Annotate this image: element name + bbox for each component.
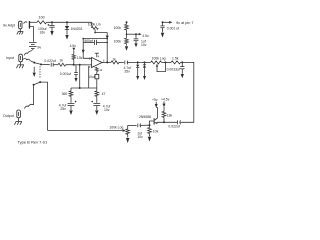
svg-text:0.001 uf: 0.001 uf [167, 27, 179, 31]
ground arrow (divider) [125, 46, 128, 51]
resistor 13k bottom [162, 107, 166, 122]
svg-text:1k: 1k [112, 57, 116, 61]
ground arrow (D2) [136, 76, 139, 80]
resistor 47 [95, 88, 99, 103]
node [66, 21, 68, 23]
svg-text:9v: 9v [37, 46, 41, 50]
divider resistor 100k upper [125, 22, 129, 34]
wire [162, 61, 171, 63]
capacitor 10uf [95, 74, 99, 88]
dpdt dashed link [39, 66, 41, 79]
emitter wire [157, 121, 177, 123]
svg-text:4.5v: 4.5v [70, 44, 77, 48]
node [79, 87, 81, 89]
pot 100k Lin (gain) [91, 22, 98, 32]
node (4.5v) [135, 33, 137, 35]
arrow 9v supply [163, 21, 173, 24]
node (pin7 cap) [162, 21, 164, 23]
arrow into box [106, 36, 109, 39]
switch bar [29, 21, 30, 29]
feedback left wire to pin2 [83, 39, 91, 59]
svg-text:47: 47 [102, 92, 106, 96]
capacitor 4.7uf 25v [68, 103, 75, 110]
ground arrow (0.0033uf) [181, 74, 184, 78]
svg-text:0.0033uf: 0.0033uf [167, 68, 180, 72]
node (wiper) [94, 32, 96, 34]
ground arrow (filter cap) [74, 78, 77, 82]
ground arrow (C1) [50, 31, 53, 36]
wire bar to battery [29, 27, 33, 42]
svg-text:+: + [92, 64, 94, 68]
svg-text:1k: 1k [59, 59, 63, 63]
ground arrow (D1) [65, 35, 68, 40]
divider resistor 100k lower [125, 34, 129, 45]
svg-text:1N4001: 1N4001 [71, 27, 83, 31]
node [164, 61, 166, 63]
node [126, 21, 128, 23]
svg-text:13k: 13k [167, 114, 173, 118]
svg-text:+4.5v: +4.5v [161, 97, 170, 101]
ground (DC jack) [17, 29, 24, 35]
svg-text:35v: 35v [124, 70, 130, 74]
wire to opamp [66, 64, 92, 66]
ground arrow (10k) [148, 137, 151, 142]
ground (input jack) [16, 62, 24, 68]
feedback box top wire [83, 38, 107, 40]
arrow into volume pot [123, 129, 126, 132]
svg-text:100: 100 [39, 15, 45, 19]
op-amp U1 [92, 57, 102, 68]
svg-text:-: - [92, 58, 93, 62]
pot 100k Log tone [151, 61, 162, 64]
svg-text:100k Log: 100k Log [109, 126, 123, 130]
svg-text:Input: Input [6, 56, 14, 60]
wire rail left [29, 21, 37, 23]
resistor 1k output [111, 61, 119, 64]
pin 4 stub [95, 53, 100, 58]
input jack tip hook [23, 59, 31, 61]
resistor 360 [69, 88, 73, 103]
svg-text:10v: 10v [104, 108, 110, 112]
svg-text:9v Adpt: 9v Adpt [3, 23, 15, 27]
svg-text:2N5088: 2N5088 [139, 115, 151, 119]
svg-text:100k Lin: 100k Lin [88, 23, 101, 27]
svg-text:10uf: 10uf [88, 75, 95, 79]
capacitor 1uf 10v [138, 124, 150, 128]
input jack J2 [19, 54, 23, 62]
switch lower contact [33, 84, 35, 86]
ground arrow (D3) [143, 76, 146, 80]
switch upper blade [31, 61, 41, 65]
resistor 1.5k [171, 61, 181, 64]
ground arrow (4.7uf 10v) [95, 110, 98, 115]
ground arrow (supply cap) [161, 33, 164, 38]
svg-text:10v: 10v [137, 135, 143, 139]
switch upper contact [33, 62, 35, 64]
collector wire [156, 108, 157, 118]
pot 100k Log volume [126, 125, 130, 137]
svg-text:10v: 10v [141, 43, 147, 47]
svg-text:+9v: +9v [152, 98, 158, 102]
svg-text:1.5k: 1.5k [172, 56, 179, 60]
wire wiper to box [95, 33, 107, 37]
wire divider to bias node [127, 33, 137, 35]
ground arrow (4.7uf 25v) [69, 110, 72, 115]
node (output) [106, 61, 108, 63]
wire pin3 down [88, 66, 90, 88]
svg-text:100k: 100k [114, 40, 122, 44]
svg-text:100k Log: 100k Log [152, 56, 166, 60]
svg-text:100k: 100k [114, 26, 122, 30]
wire pot top [128, 124, 137, 126]
svg-text:13k: 13k [77, 56, 83, 60]
transistor Q1 [150, 118, 158, 125]
node [137, 61, 139, 63]
plus mark [75, 101, 77, 103]
svg-text:10k: 10k [153, 130, 159, 134]
diode D1 1N4001 [65, 22, 69, 34]
svg-text:0.022uf: 0.022uf [44, 59, 55, 63]
output jack J3 [17, 110, 21, 118]
battery switch hook [24, 51, 32, 56]
wire pole to rail [40, 82, 47, 130]
svg-text:0.022uf: 0.022uf [168, 125, 179, 129]
resistor 13k bias [72, 50, 75, 64]
bottom rail [48, 129, 123, 131]
diode D2 clip [136, 62, 139, 76]
resistor small (opamp leg) [95, 67, 98, 75]
capacitor 500pf row [83, 40, 107, 45]
ground arrow (volume) [126, 138, 129, 143]
node [181, 61, 183, 63]
node (divider mid) [126, 33, 128, 35]
capacitor 0.001uf (supply) [160, 22, 164, 32]
svg-text:9v at pin 7: 9v at pin 7 [176, 21, 194, 25]
svg-text:4.5v: 4.5v [142, 34, 149, 38]
ground stub (switch) [33, 67, 35, 73]
plus mark [91, 101, 93, 103]
arrow +4.5v [163, 101, 166, 107]
svg-text:360: 360 [62, 92, 68, 96]
svg-text:Type B Rev 7-01: Type B Rev 7-01 [17, 140, 48, 145]
node [82, 38, 84, 40]
capacitor 0.022uf input [51, 63, 58, 67]
wire to right edge [180, 62, 193, 122]
node [144, 61, 146, 63]
node [106, 42, 108, 44]
arrow from 4.5v [72, 48, 75, 51]
capacitor 1uf bias [134, 34, 139, 43]
ground (output jack) [14, 118, 22, 125]
capacitor 0.0033uf [180, 62, 184, 73]
plus mark C1 [48, 24, 50, 26]
svg-text:500pf: 500pf [84, 39, 93, 43]
wire leg bus [71, 87, 97, 89]
arrow on feedback wire [82, 50, 85, 54]
wire node down [79, 65, 81, 88]
node [73, 64, 75, 66]
node A [149, 124, 151, 126]
feedback right wire to output node [106, 39, 108, 63]
switch lower pole [39, 81, 41, 83]
svg-text:25v: 25v [60, 107, 66, 111]
node B [163, 121, 165, 123]
node [51, 21, 53, 23]
wire [119, 61, 124, 63]
resistor 100 [37, 21, 47, 24]
arrow 4.5v [136, 33, 142, 35]
resistor 1k input [58, 63, 66, 66]
arrow +9v [155, 102, 158, 108]
power switch SW1 [24, 22, 28, 24]
svg-text:Output: Output [3, 114, 14, 118]
ground arrow (switch) [33, 73, 36, 77]
capacitor C1 100uf [49, 22, 54, 31]
node (filter) [79, 64, 81, 66]
switch upper pole [40, 63, 42, 65]
capacitor 0.001uf filter [74, 65, 78, 78]
wire rail seg2 [47, 21, 92, 23]
ground arrow (bias cap) [134, 43, 137, 47]
wire [132, 61, 151, 63]
capacitor 0.022uf bottom [178, 120, 181, 124]
DC jack J1 [19, 21, 22, 29]
switch lower blade [34, 82, 41, 85]
wire contact to output jack [24, 85, 33, 109]
svg-text:16v: 16v [40, 30, 46, 34]
resistor 10k [148, 125, 152, 136]
svg-text:0.001uf: 0.001uf [60, 72, 71, 76]
output wire [102, 61, 111, 63]
node [106, 38, 108, 40]
capacitor 4.7uf 35v [125, 61, 132, 65]
battery B1 9v [29, 43, 37, 51]
diode D3 clip [143, 62, 146, 76]
wire switch to cap [41, 63, 50, 65]
pot wiper loop [156, 62, 166, 71]
capacitor 4.7uf 10v [93, 103, 100, 110]
